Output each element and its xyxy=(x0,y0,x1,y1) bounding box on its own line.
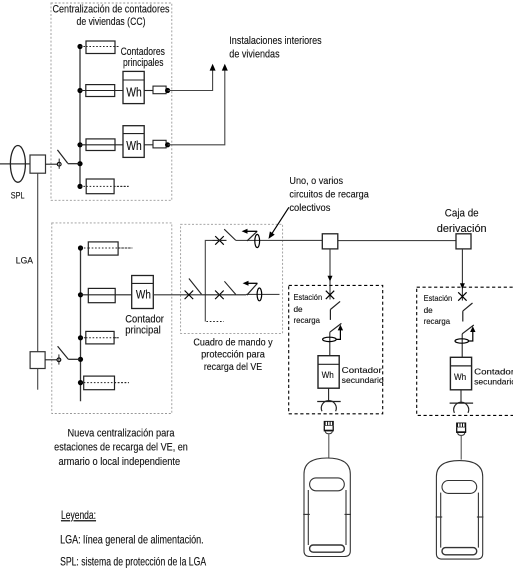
wire xyxy=(213,239,227,241)
svg-text:Wh: Wh xyxy=(126,138,142,153)
svg-text:Nueva centralización para: Nueva centralización para xyxy=(68,427,176,439)
breaker X left station xyxy=(326,291,334,299)
wire branch2 to arrow xyxy=(168,70,213,91)
wire bottom circuit xyxy=(202,294,246,296)
fuse F5 reserved xyxy=(88,242,118,255)
breaker X right station xyxy=(458,292,466,300)
svg-text:principales: principales xyxy=(123,57,164,69)
drop wire left xyxy=(329,249,331,300)
box nueva centralización dashed enclosure xyxy=(52,223,172,414)
svg-text:Wh: Wh xyxy=(322,370,334,380)
fuse F7 reserved xyxy=(86,331,114,344)
svg-text:Wh: Wh xyxy=(454,372,466,382)
arrow up 1 xyxy=(210,64,216,71)
wire branch3 xyxy=(80,144,123,146)
node dot VE branch1 xyxy=(78,245,83,250)
contact tick 2 xyxy=(58,354,60,364)
box SPL xyxy=(30,155,46,173)
switch blade right station xyxy=(463,303,473,311)
wire blade2 to bus xyxy=(68,358,80,360)
RCD up arrowhead left xyxy=(338,325,343,331)
node dot branch2 output xyxy=(165,88,170,93)
svg-text:Estación: Estación xyxy=(424,294,453,303)
RCD bottom arrow line xyxy=(245,282,258,284)
svg-text:Wh: Wh xyxy=(126,85,142,100)
svg-text:armario o local independiente: armario o local independiente xyxy=(58,456,180,468)
dotted continuation riser xyxy=(206,321,224,323)
node dot VE branch4 xyxy=(78,380,83,385)
junction box 2 caja de derivación xyxy=(456,234,471,249)
wire service entrance xyxy=(0,163,30,165)
annotation arrow xyxy=(270,207,289,236)
wire LGA xyxy=(37,173,39,352)
svg-text:de: de xyxy=(294,305,304,314)
fuse F1 reserved xyxy=(86,41,115,54)
bottom circuit: breaker X3 xyxy=(215,291,224,300)
wire dotted VE branch1 xyxy=(81,247,133,249)
car right xyxy=(436,461,484,559)
wire dotted branch4 xyxy=(80,185,129,187)
node dot VE branch3 xyxy=(78,335,83,340)
wire meter to socket left xyxy=(328,388,330,401)
svg-text:de viviendas: de viviendas xyxy=(229,48,280,60)
switch blade top circuit xyxy=(224,229,236,240)
RCD bottom arrowhead xyxy=(243,281,249,286)
switch blade cuadro main xyxy=(189,279,202,295)
node junction dot branch2 xyxy=(77,88,82,93)
svg-text:secundario: secundario xyxy=(342,376,384,385)
svg-text:estaciones de recarga del VE,: estaciones de recarga del VE, en xyxy=(54,442,188,454)
fuse F3 xyxy=(86,139,115,151)
riser cuadro xyxy=(205,240,212,321)
RCD arm right xyxy=(469,329,473,341)
wire main distribution xyxy=(322,240,456,242)
fuse F6 xyxy=(88,288,115,302)
svg-text:recarga del VE: recarga del VE xyxy=(204,361,262,373)
RCD top toroid xyxy=(255,234,260,247)
svg-text:LGA: línea general de alimenta: LGA: línea general de alimentación. xyxy=(60,532,204,546)
transformer ellipse SPL xyxy=(10,146,25,183)
node dot VE branch2 xyxy=(78,292,83,297)
svg-text:Wh: Wh xyxy=(136,289,151,301)
wire through RCD top xyxy=(236,239,322,241)
svg-text:Cuadro de mando y: Cuadro de mando y xyxy=(193,337,273,349)
fuse F8 reserved xyxy=(84,376,115,390)
station chain right (translated copy) xyxy=(436,292,513,559)
RCD bottom diagonal xyxy=(247,283,258,295)
switch blade main xyxy=(57,150,67,164)
svg-text:Caja de: Caja de xyxy=(445,207,479,219)
contact circle xyxy=(57,162,61,166)
contactor blade right station xyxy=(462,325,474,334)
node junction dot switch contact xyxy=(77,161,82,166)
switch blade bottom circuit xyxy=(224,281,235,294)
wire dotted VE branch4 xyxy=(81,382,129,384)
svg-text:Centralización de contadores: Centralización de contadores xyxy=(53,4,170,16)
box CC: Centralización de contadores dashed enclosure xyxy=(51,3,172,200)
wire through toroid right xyxy=(461,334,463,358)
wire main into cuadro xyxy=(153,294,202,296)
top circuit: breaker X2 xyxy=(215,236,224,245)
node dot VE switch contact xyxy=(78,357,83,362)
svg-text:recarga: recarga xyxy=(424,317,451,326)
socket symbol left xyxy=(317,401,341,403)
RCD bottom toroid xyxy=(257,288,262,301)
wire dotted branch1 xyxy=(80,46,119,48)
RCD up arrowhead right xyxy=(470,326,475,332)
wire dotted VE branch3 xyxy=(81,337,119,339)
svg-text:principal: principal xyxy=(125,325,161,337)
connector piece branch2 xyxy=(144,90,153,92)
RCD top arrow line xyxy=(244,230,258,232)
drop wire right xyxy=(461,249,463,301)
RCD top arrowhead xyxy=(242,229,248,234)
RCD toroid flat right xyxy=(455,339,469,343)
svg-text:secundario: secundario xyxy=(474,377,513,386)
box cuadro de mando dashed enclosure xyxy=(181,224,283,333)
svg-text:protección para: protección para xyxy=(201,349,265,361)
box estación de recarga left xyxy=(289,285,383,413)
box estación de recarga right xyxy=(417,287,513,415)
meter Wh principal vivienda 2 xyxy=(123,126,144,158)
fuse F4 reserved xyxy=(86,179,114,194)
svg-text:recarga: recarga xyxy=(294,316,321,325)
node junction dot branch4 xyxy=(77,184,82,189)
wire VE branch2 xyxy=(81,294,132,296)
contact circle 2 xyxy=(57,358,61,362)
cable left xyxy=(328,434,330,458)
box LGA tap xyxy=(30,352,45,369)
svg-text:SPL: sistema de protección de: SPL: sistema de protección de la LGA xyxy=(60,555,206,569)
svg-text:Uno, o varios: Uno, o varios xyxy=(289,176,343,187)
wire branch2 xyxy=(80,90,123,92)
wire tap to contact xyxy=(45,359,57,361)
drop arrowhead left xyxy=(328,276,333,282)
contactor blade left station xyxy=(330,323,342,332)
drop arrowhead right xyxy=(460,283,465,289)
breaker X1 xyxy=(185,291,194,300)
node junction dot branch3 xyxy=(77,142,82,147)
junction box 1 xyxy=(322,234,338,249)
wire meter to socket right xyxy=(460,390,462,403)
RCD top diagonal xyxy=(247,231,257,241)
wire below tap box xyxy=(37,369,39,390)
svg-text:de viviendas (CC): de viviendas (CC) xyxy=(77,16,146,28)
cable right xyxy=(460,435,462,459)
svg-text:de: de xyxy=(424,306,434,315)
wire to stub end xyxy=(246,293,280,295)
arrow up 2 xyxy=(222,64,228,71)
wire blade to bus xyxy=(68,163,80,165)
svg-text:Contador: Contador xyxy=(342,366,382,375)
svg-text:derivación: derivación xyxy=(437,223,487,235)
bus riser in CC xyxy=(79,47,81,187)
switch blade left station xyxy=(330,301,340,309)
svg-text:Contador: Contador xyxy=(474,368,513,377)
socket symbol right xyxy=(450,402,474,404)
wire branch3 to arrow xyxy=(168,70,225,145)
svg-text:SPL: SPL xyxy=(11,191,25,201)
fuse F2 xyxy=(86,85,115,97)
plug connector left xyxy=(324,421,334,434)
svg-text:circuitos de recarga: circuitos de recarga xyxy=(289,190,369,201)
car left xyxy=(303,458,351,557)
node junction dot branch1 xyxy=(77,44,82,49)
wire through toroid left xyxy=(329,332,331,356)
RCD toroid flat left xyxy=(323,337,337,341)
RCD arm left xyxy=(336,328,340,340)
node dot branch3 output xyxy=(165,142,170,147)
station chain left xyxy=(303,291,384,557)
contact tick xyxy=(58,159,60,169)
meter Wh contador secundario left xyxy=(318,356,339,389)
plug connector right xyxy=(456,423,466,436)
svg-text:colectivos: colectivos xyxy=(289,203,330,214)
svg-text:Leyenda:: Leyenda: xyxy=(61,508,96,522)
svg-text:Instalaciones interiores: Instalaciones interiores xyxy=(229,35,322,47)
switch blade 2 xyxy=(58,346,69,359)
meter Wh contador principal xyxy=(132,276,154,309)
meter Wh contador secundario right xyxy=(450,357,471,390)
connector piece branch3 xyxy=(144,144,153,146)
meter Wh principal vivienda 1 xyxy=(123,71,144,103)
bus riser VE xyxy=(80,248,82,401)
svg-text:Estación: Estación xyxy=(294,293,323,302)
wire box to contact xyxy=(46,163,58,165)
svg-text:LGA: LGA xyxy=(16,255,34,266)
